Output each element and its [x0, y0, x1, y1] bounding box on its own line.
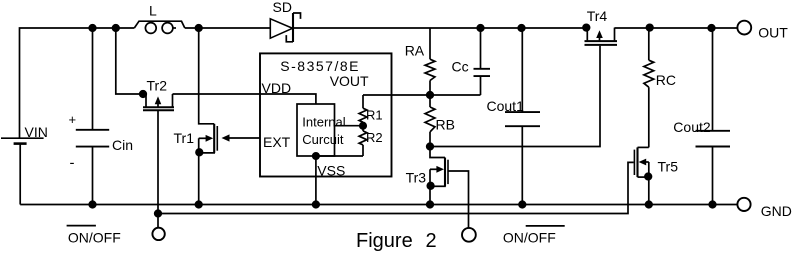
svg-text:OUT: OUT [758, 25, 788, 41]
svg-text:Tr2: Tr2 [147, 78, 168, 94]
wire: ON/OFF control line [158, 162, 634, 213]
svg-text:VSS: VSS [317, 163, 345, 179]
node: Tr1 source gnd [195, 201, 202, 208]
svg-text:RA: RA [405, 42, 425, 58]
node: VSS junction [313, 153, 319, 159]
svg-text:Cin: Cin [112, 137, 133, 153]
svg-text:R1: R1 [366, 108, 383, 123]
svg-text:Tr4: Tr4 [587, 8, 608, 24]
wire: GND bottom rail [20, 204, 737, 206]
node: Tr4 source dot [583, 24, 590, 31]
terminal OUT [737, 21, 751, 35]
capacitor Cin [76, 28, 109, 205]
diode SD (Schottky) [270, 13, 300, 42]
wire: RB junction to Tr4 gate [430, 46, 600, 147]
wire: VOUT line inside IC [363, 94, 430, 96]
capacitor Cc [474, 28, 491, 95]
IC U1 S-8357/8E outer box [260, 53, 392, 176]
transistor Tr5 (N-ch, mirrored) [634, 147, 651, 204]
wire: R2 bottom to VSS node [316, 155, 363, 157]
terminal ON/OFF right [462, 228, 476, 242]
node: Cout1 top junction [518, 25, 525, 32]
internal circuit box [297, 104, 335, 156]
svg-text:EXT: EXT [263, 134, 291, 150]
node: Cout1 gnd [519, 201, 526, 208]
node: feedback junction (RA/RB/VOUT) [427, 92, 434, 99]
svg-text:RC: RC [656, 72, 676, 88]
transistor Tr3 (N-ch) [427, 147, 448, 205]
node: Tr2 source dot [140, 91, 147, 98]
wire: Tr3 gate to ON/OFF terminal [448, 171, 469, 228]
svg-text:Cc: Cc [452, 59, 469, 75]
svg-text:ON/OFF: ON/OFF [68, 229, 121, 245]
node: ON/OFF junction left [155, 210, 162, 217]
label ON/OFF left with overline [67, 226, 121, 246]
resistor R2 [359, 126, 367, 156]
label ON/OFF right with overline [503, 226, 565, 245]
node: Cout2 top junction [708, 25, 715, 32]
svg-text:ON/OFF: ON/OFF [503, 229, 556, 245]
svg-text:Tr5: Tr5 [658, 159, 679, 175]
wire: rail from inductor to SD anode [185, 27, 270, 29]
node: RC top junction [646, 24, 653, 31]
wire: R1/R2 tap to internal circuit [335, 125, 364, 127]
svg-text:Tr3: Tr3 [406, 169, 427, 185]
capacitor Cout2 [696, 28, 731, 205]
resistor RB [425, 95, 435, 147]
resistor RC [644, 28, 654, 148]
node: R1/R2 junction [360, 123, 366, 129]
svg-text:Cout1: Cout1 [487, 98, 525, 114]
wire: EXT to Tr1 gate with arrow [222, 134, 261, 141]
svg-text:S-8357/8E: S-8357/8E [280, 58, 360, 74]
terminal GND [737, 198, 750, 211]
svg-text:VOUT: VOUT [330, 73, 369, 89]
capacitor Cout1 [505, 28, 540, 205]
wire: Tr2 gate down to ON/OFF [157, 110, 159, 227]
wire: Tr2 branch vertical and VDD rail [116, 28, 146, 94]
terminal ON/OFF left [152, 228, 164, 240]
node: Tr3 source gnd [427, 201, 434, 208]
transistor Tr1 (N-ch switch) [196, 28, 217, 205]
node: Tr2 branch top junction [113, 25, 120, 32]
node: Cc top junction [477, 25, 484, 32]
wire: Cc bottom to feedback node [430, 94, 481, 96]
wire: VIN top rail left segment [20, 28, 135, 138]
battery VIN [1, 138, 44, 204]
svg-text:+: + [69, 112, 77, 127]
wire: VDD internal [260, 94, 316, 104]
inductor L [134, 21, 185, 33]
svg-text:SD: SD [273, 0, 292, 15]
svg-text:Figure: Figure [356, 230, 413, 252]
resistor R1 [359, 95, 367, 126]
svg-text:-: - [70, 155, 75, 172]
svg-text:Cout2: Cout2 [673, 119, 711, 135]
svg-text:RB: RB [436, 117, 455, 133]
node: Tr5 source gnd [646, 201, 653, 208]
node: LX junction (Tr1 drain) [195, 25, 202, 32]
node: RB bottom junction [427, 143, 434, 150]
node: Cin gnd [89, 201, 96, 208]
svg-text:Curcuit: Curcuit [302, 132, 344, 147]
node: VSS gnd [313, 201, 320, 208]
svg-text:Internal: Internal [302, 114, 345, 129]
wire: VSS down to ground rail [315, 156, 317, 205]
svg-text:2: 2 [426, 230, 437, 252]
svg-text:Tr1: Tr1 [174, 130, 195, 146]
transistor Tr2 (P-ch) [143, 94, 174, 110]
transistor Tr4 (P-ch) [585, 28, 618, 45]
svg-text:L: L [149, 2, 157, 18]
svg-text:VIN: VIN [25, 124, 48, 140]
node: Cin top junction [89, 25, 96, 32]
svg-text:R2: R2 [366, 130, 383, 145]
wire: VDD rail from Tr2 to IC [173, 93, 261, 95]
wire: rail Tr4 drain to OUT [615, 27, 738, 29]
wire: rail SD cathode to Tr4 [293, 27, 587, 29]
node: Cout2 gnd [709, 201, 716, 208]
svg-text:GND: GND [761, 203, 792, 219]
resistor RA [425, 28, 435, 95]
